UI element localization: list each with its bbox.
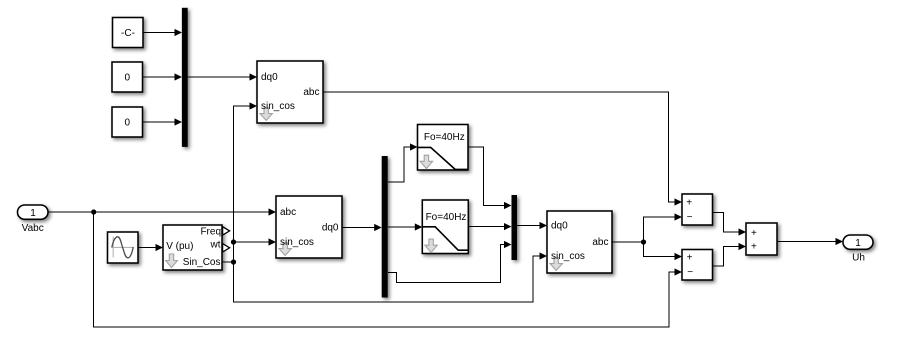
wire U3 abc out to junction [612, 241, 644, 243]
svg-text:dq0: dq0 [322, 222, 339, 233]
wire from -C- to Mux1 [143, 29, 182, 36]
svg-text:dq0: dq0 [551, 220, 568, 231]
demux M2 [382, 156, 388, 298]
svg-text:V (pu): V (pu) [166, 241, 193, 252]
svg-text:Sin_Cos: Sin_Cos [183, 257, 221, 268]
wire Mux M3 to U3 dq0 [517, 222, 547, 229]
sum block S1 (+ -) [682, 194, 713, 225]
svg-text:Uh: Uh [852, 253, 865, 264]
wire S2 out to S3 [713, 243, 747, 266]
wire from 0 to Mux1 [143, 118, 183, 125]
svg-text:+: + [751, 242, 757, 253]
svg-text:abc: abc [280, 207, 296, 218]
wire sin_cos bus down and across to U3 sin_cos [234, 252, 548, 302]
wire Demux out1 to filter F1 [388, 143, 418, 182]
svg-text:+: + [687, 252, 693, 263]
dq0-to-abc block U3 [547, 211, 612, 273]
wire Demux out2 to filter F2 [388, 223, 422, 230]
svg-text:sin_cos: sin_cos [551, 251, 585, 262]
svg-text:Vabc: Vabc [22, 223, 44, 234]
wire U1 abc out to Sum1 plus [323, 92, 682, 206]
constant block 0 (middle) [112, 62, 143, 92]
input port 1 Vabc [18, 205, 49, 219]
lowpass filter block F2 Fo=40Hz [422, 200, 468, 254]
dq0-to-abc block U1 [257, 61, 323, 123]
svg-text:0: 0 [125, 73, 131, 84]
wire branch to U2 sin_cos [234, 238, 277, 245]
svg-text:−: − [687, 267, 693, 278]
svg-text:sin_cos: sin_cos [261, 101, 295, 112]
svg-text:abc: abc [303, 87, 319, 98]
constant block -C- [113, 18, 144, 48]
wire U2 dq0 out to Demux [342, 224, 382, 231]
PLL block V (pu) [163, 225, 222, 270]
wire vertical sin_cos bus up to U1 sin_cos [234, 102, 258, 262]
wire Sin_Cos net: from PLL out to vertical bus [222, 261, 234, 263]
svg-text:Fo=40Hz: Fo=40Hz [424, 132, 465, 143]
svg-text:sin_cos: sin_cos [280, 237, 314, 248]
sum block S3 (+ +) [746, 223, 777, 255]
wire junction up to Sum1 minus [644, 213, 683, 242]
wire Mux1 to dq0 block U1 [187, 73, 257, 80]
mux M3 [512, 195, 518, 260]
node sin_cos junction at U2 branch [231, 239, 236, 244]
lowpass filter block F1 Fo=40Hz [418, 125, 469, 171]
output port 1 Uh [843, 235, 873, 249]
abc-to-dq0 block U2 [276, 196, 342, 258]
wire junction down to Sum2 plus [644, 242, 683, 260]
output chevron Freq (unconnected) [223, 227, 230, 235]
node (junction on Vabc wire) [91, 209, 96, 214]
node junction on U3 output [641, 239, 646, 244]
svg-text:1: 1 [30, 208, 36, 219]
svg-text:wt: wt [210, 239, 221, 250]
wire feedback from junction down, across bottom, up to Sum2 minus [94, 212, 682, 327]
svg-text:Fo=40Hz: Fo=40Hz [426, 212, 467, 223]
sine wave source block [108, 232, 139, 263]
mux M1 [182, 8, 188, 147]
svg-text:dq0: dq0 [261, 72, 278, 83]
wire Demux out3 to Mux M3 [388, 241, 512, 283]
svg-text:1: 1 [855, 238, 861, 249]
wire from 0 to Mux1 [143, 73, 183, 80]
sum block S2 (+ -) [682, 250, 713, 281]
svg-text:-C-: -C- [121, 28, 135, 39]
wire Vabc to abc input of U2 [48, 208, 276, 215]
node sin_cos junction at PLL output [231, 259, 236, 264]
wire S1 out to S3 [713, 213, 747, 236]
constant block 0 (lower) [112, 107, 143, 137]
svg-text:Freq: Freq [200, 226, 221, 237]
wire F2 out to Mux M3 [468, 223, 511, 230]
wire F1 out to Mux M3 [468, 147, 512, 209]
wire sine to PLL [138, 244, 163, 251]
svg-text:−: − [687, 212, 693, 223]
svg-text:+: + [686, 198, 692, 209]
svg-text:+: + [751, 228, 757, 239]
output chevron wt (unconnected) [223, 244, 230, 252]
svg-text:0: 0 [125, 118, 131, 129]
svg-text:abc: abc [592, 237, 608, 248]
wire S3 out to output port Uh [777, 238, 843, 245]
